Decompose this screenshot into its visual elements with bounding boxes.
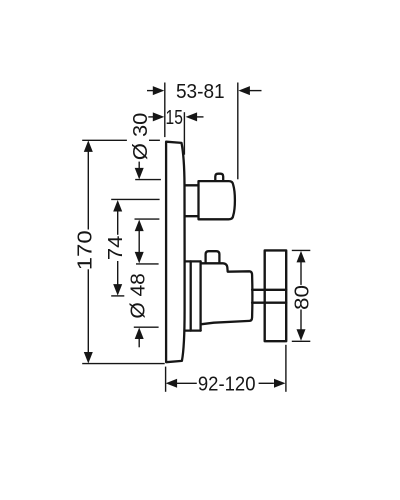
dim D30/D48 middle shaft — [138, 230, 140, 254]
svg-text:170: 170 — [75, 230, 97, 270]
thermostat handle button — [215, 174, 223, 180]
svg-text:92-120: 92-120 — [198, 374, 256, 396]
arrowhead D30 top pointing down — [135, 168, 144, 180]
volume control handle body — [201, 263, 253, 324]
arrowhead 92-120 right — [274, 379, 286, 388]
dim 80 lower shaft — [300, 310, 302, 331]
arrowhead 80 top — [297, 251, 306, 263]
extension line top of plate right part — [149, 139, 160, 141]
svg-text:53-81: 53-81 — [176, 81, 225, 103]
cross handle stem bottom line — [252, 302, 286, 304]
extension line 53-81/15 left vertical — [164, 83, 166, 138]
dim 92-120 left shaft — [177, 382, 197, 384]
arrowhead 80 bottom — [297, 329, 306, 341]
extension line 74 bottom (lower handle axis) — [111, 295, 124, 297]
arrowhead 92-120 left — [166, 379, 178, 388]
arrowhead 15 left — [153, 112, 165, 121]
extension line D48 top — [136, 263, 159, 265]
arrowhead D48 bottom pointing up — [135, 328, 144, 340]
dim 74 upper shaft — [117, 210, 119, 235]
volume control sleeve left edge — [190, 261, 192, 330]
volume control sleeve bottom line — [185, 329, 201, 331]
dim 53-81 right arrow tail — [250, 90, 262, 92]
thermostat handle collar bottom line — [185, 215, 199, 217]
dim D48 bottom shaft — [138, 338, 140, 348]
arrowhead 170 top — [84, 140, 93, 152]
dim 170 upper shaft — [87, 151, 89, 230]
cross handle stem top line — [252, 289, 286, 291]
extension line D30 bottom — [135, 218, 160, 220]
extension line 15 right vertical — [183, 112, 185, 155]
arrowhead 53-81 right — [238, 86, 250, 95]
svg-text:Ø 30: Ø 30 — [130, 113, 152, 161]
extension line 92-120 right vertical — [285, 345, 287, 392]
arrowhead 15 right — [186, 112, 198, 121]
svg-text:74: 74 — [105, 236, 127, 261]
volume control sleeve top line — [185, 260, 201, 262]
svg-text:Ø 48: Ø 48 — [128, 273, 150, 319]
arrowhead D48 top pointing down — [135, 252, 144, 264]
arrowhead 74 bottom — [113, 284, 122, 296]
dim 170 lower shaft — [87, 269, 89, 353]
thermostat handle collar top line — [185, 184, 199, 186]
escutcheon plate side view — [166, 142, 185, 363]
extension line D30 top — [135, 179, 161, 181]
thermostat handle body — [199, 181, 235, 219]
dim D30 top shaft from text — [138, 162, 140, 170]
dim 74 lower shaft — [117, 261, 119, 286]
extension line 92-120 left vertical — [165, 367, 167, 392]
arrowhead 53-81 left — [153, 86, 165, 95]
dim 15 right arrow tail — [197, 116, 204, 118]
extension line 74 top (upper handle axis) — [111, 198, 159, 200]
svg-text:15: 15 — [166, 107, 183, 129]
cross handle bar — [265, 250, 287, 341]
extension line D48 bottom — [134, 326, 159, 328]
arrowhead D30 bottom pointing up — [135, 220, 144, 232]
extension line bottom of plate (170 bottom) — [82, 363, 165, 365]
dim 92-120 right shaft — [259, 382, 274, 384]
arrowhead 170 bottom — [84, 352, 93, 364]
dim 15 left arrow tail — [148, 116, 153, 118]
dim 80 upper shaft — [300, 261, 302, 285]
extension line 53-81 right vertical — [237, 83, 239, 180]
dim 53-81 left arrow tail — [147, 90, 153, 92]
extension line 80 top — [292, 249, 311, 251]
svg-text:80: 80 — [291, 285, 313, 310]
extension line 80 bottom — [292, 340, 311, 342]
volume control safety button — [206, 251, 220, 263]
arrowhead 74 top — [113, 200, 122, 212]
extension line top of plate (170 top) left part — [82, 139, 127, 141]
volume control sleeve right edge — [199, 261, 201, 330]
